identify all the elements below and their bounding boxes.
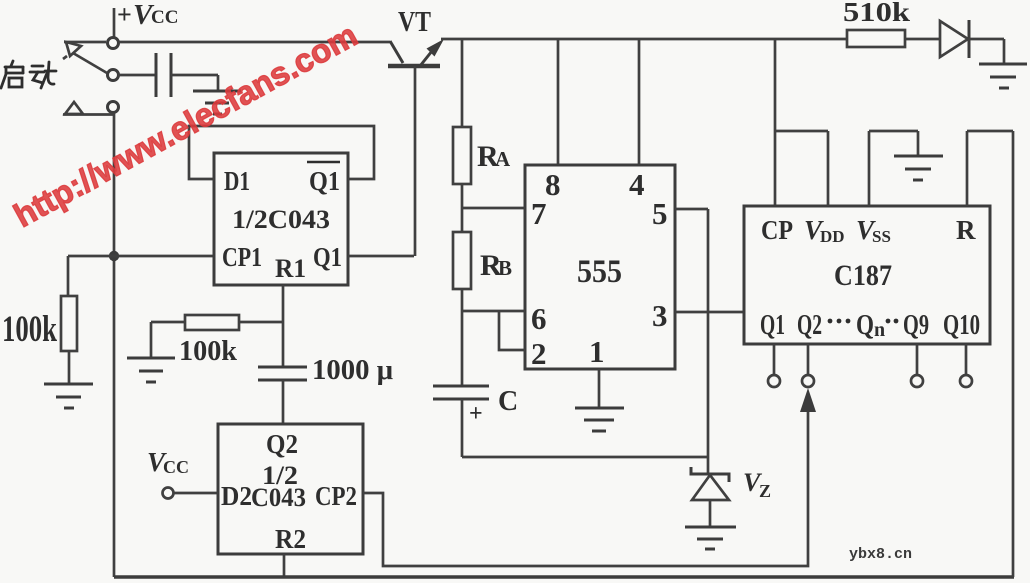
svg-text:1: 1 xyxy=(589,334,605,369)
svg-text:1000 μ: 1000 μ xyxy=(312,355,393,386)
svg-text:CP2: CP2 xyxy=(315,481,357,511)
svg-text:Q1: Q1 xyxy=(309,166,340,196)
svg-text:Q2: Q2 xyxy=(266,429,298,459)
svg-text:CP1: CP1 xyxy=(222,242,262,272)
svg-text:2: 2 xyxy=(531,336,547,371)
svg-text:A: A xyxy=(495,147,511,171)
svg-text:C: C xyxy=(498,386,518,417)
svg-text:4: 4 xyxy=(629,167,645,202)
svg-text:100k: 100k xyxy=(2,309,57,350)
svg-text:+: + xyxy=(117,0,132,29)
svg-text:1/2C043: 1/2C043 xyxy=(232,205,330,234)
svg-text:Z: Z xyxy=(759,481,771,501)
svg-text:8: 8 xyxy=(545,167,561,202)
svg-text:100k: 100k xyxy=(179,336,237,367)
svg-text:5: 5 xyxy=(652,196,668,231)
svg-text:CC: CC xyxy=(151,7,178,28)
svg-text:SS: SS xyxy=(872,227,891,246)
svg-text:Q9: Q9 xyxy=(903,310,929,341)
svg-text:D1: D1 xyxy=(224,166,250,196)
svg-text:Q1: Q1 xyxy=(760,310,785,341)
svg-text:Q: Q xyxy=(856,310,874,341)
svg-text:D2: D2 xyxy=(221,481,252,511)
svg-text:C043: C043 xyxy=(251,483,306,512)
svg-text:R2: R2 xyxy=(275,524,306,554)
svg-text:Q2: Q2 xyxy=(797,310,822,341)
svg-text:Q10: Q10 xyxy=(943,310,980,341)
svg-text:R1: R1 xyxy=(275,254,306,283)
svg-text:R: R xyxy=(956,215,976,245)
svg-text:510k: 510k xyxy=(843,0,910,27)
svg-text:C187: C187 xyxy=(834,259,892,292)
svg-text:+: + xyxy=(469,401,483,427)
svg-text:B: B xyxy=(498,256,512,280)
svg-text:555: 555 xyxy=(577,254,622,290)
svg-text:n: n xyxy=(874,319,885,341)
svg-text:3: 3 xyxy=(652,298,668,333)
svg-text:ybx8.cn: ybx8.cn xyxy=(849,546,912,563)
svg-text:7: 7 xyxy=(531,196,547,231)
svg-text:Q1: Q1 xyxy=(313,242,342,272)
svg-text:CP: CP xyxy=(761,215,793,245)
svg-text:6: 6 xyxy=(531,301,547,336)
svg-text:DD: DD xyxy=(820,227,845,246)
svg-text:CC: CC xyxy=(163,457,189,477)
svg-text:VT: VT xyxy=(398,6,431,38)
